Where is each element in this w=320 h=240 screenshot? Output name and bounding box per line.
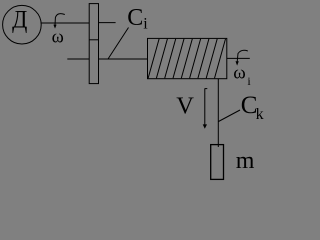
svg-text:i: i <box>143 16 148 33</box>
wire drum shaft stub right <box>227 57 250 59</box>
rotation arrow omega (motor) <box>55 14 65 26</box>
rotation arrow omega1 (drum) <box>237 50 248 62</box>
leader line for C_i <box>108 28 129 60</box>
drum body <box>148 38 227 78</box>
rope from drum to mass <box>217 79 219 147</box>
svg-text:k: k <box>256 106 264 123</box>
wire upper shaft stub right <box>99 22 116 24</box>
svg-text:m: m <box>236 148 255 174</box>
motor M (Д) circle <box>3 5 42 44</box>
svg-text:V: V <box>176 92 194 119</box>
svg-text:Д: Д <box>12 6 27 33</box>
velocity arrow V <box>204 88 206 125</box>
gearbox (reducer) body <box>89 4 98 84</box>
drum hatching <box>148 39 225 78</box>
mass block <box>211 145 224 180</box>
svg-text:ω: ω <box>233 63 246 84</box>
wire motor shaft <box>41 22 89 24</box>
svg-text:ω: ω <box>52 28 64 48</box>
wire lower shaft stub left <box>67 58 89 60</box>
wire lower shaft to drum <box>99 58 148 60</box>
gearbox divider <box>89 39 98 41</box>
svg-text:C: C <box>127 5 143 31</box>
leader line for C_k <box>219 110 241 122</box>
